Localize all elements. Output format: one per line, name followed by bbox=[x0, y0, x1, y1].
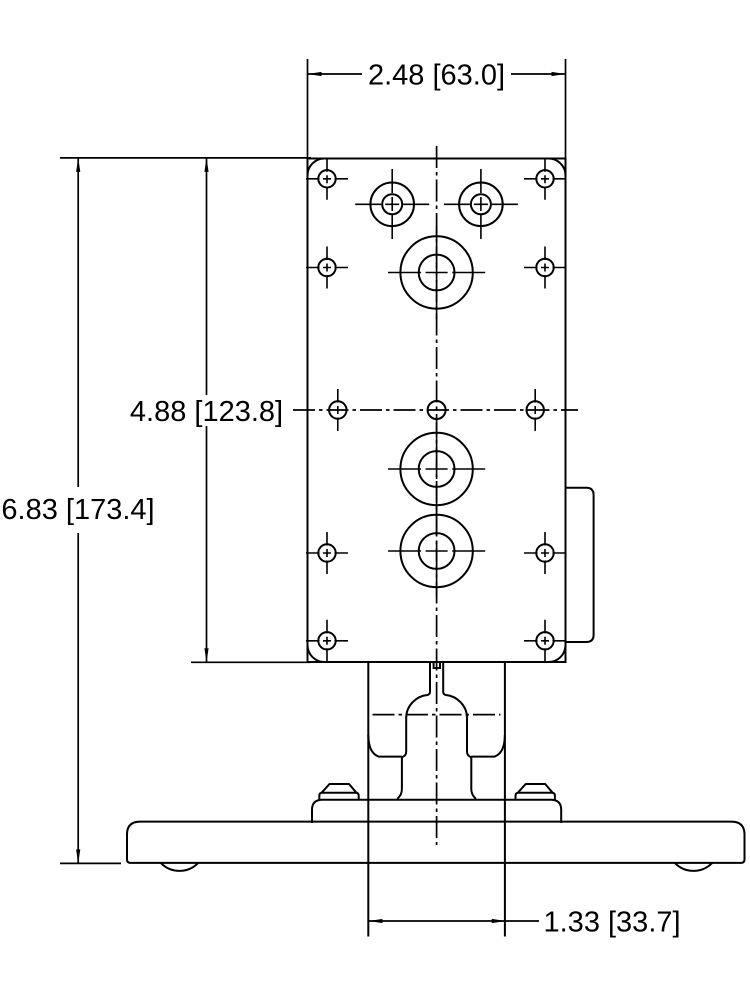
arrowhead 6.83 top bbox=[76, 158, 80, 172]
pedestal right outer line (also extension line for 1.33 dim) bbox=[504, 662, 506, 937]
plate corner fillet top-right bbox=[549, 159, 566, 176]
extension line top width left (plate edge extended) bbox=[307, 59, 309, 159]
horizontal centerline pedestal pivot bbox=[373, 714, 501, 716]
hole centre-row left small bbox=[329, 389, 346, 431]
svg-text:2.48 [63.0]: 2.48 [63.0] bbox=[368, 59, 505, 91]
hole upper-right small row2 bbox=[524, 247, 566, 289]
pedestal left fork curve and shelf bbox=[368, 735, 402, 757]
dimension line 1.33 bbox=[368, 920, 505, 922]
hole bottom-left small bbox=[306, 620, 348, 662]
arrowhead 6.83 bottom bbox=[76, 849, 80, 863]
dimension line 1.33 tail bbox=[506, 920, 539, 922]
hole large middle counterbored bbox=[388, 423, 485, 516]
pedestal right fork curve and shelf bbox=[471, 735, 505, 757]
plate outline bbox=[308, 159, 566, 663]
left screw head cap bbox=[322, 784, 357, 793]
dimension line 4.88 upper part bbox=[206, 158, 208, 395]
arrowhead 2.48 right bbox=[552, 72, 566, 76]
extension line plate top to left dims bbox=[60, 157, 311, 159]
side tab on right edge bbox=[566, 488, 594, 642]
hole upper-left small row2 bbox=[306, 247, 348, 289]
svg-text:6.83 [173.4]: 6.83 [173.4] bbox=[1, 494, 154, 526]
pedestal left outer line (also extension line for 1.33 dim) bbox=[367, 662, 369, 937]
base plate bbox=[127, 822, 745, 863]
arrowhead 4.88 bottom bbox=[204, 648, 208, 662]
mount pad on base bbox=[312, 800, 561, 823]
dimension line 2.48 left part bbox=[308, 73, 363, 75]
svg-text:1.33 [33.7]: 1.33 [33.7] bbox=[544, 906, 681, 938]
svg-text:4.88 [123.8]: 4.88 [123.8] bbox=[130, 396, 283, 428]
arrowhead 2.48 left bbox=[308, 72, 322, 76]
plate corner fillet bottom-right bbox=[549, 645, 566, 662]
plate corner fillet top-left bbox=[308, 159, 325, 176]
extension line top width right (plate edge extended) bbox=[565, 59, 567, 159]
hole medium right counterbored bbox=[444, 169, 518, 240]
hole mid-right small bbox=[524, 532, 566, 574]
dimension line 2.48 right part bbox=[511, 73, 566, 75]
plate corner fillet bottom-left bbox=[308, 645, 325, 662]
hole centre-row right small bbox=[527, 389, 544, 431]
horizontal centerline plate middle row bbox=[293, 409, 578, 411]
left foot bbox=[161, 863, 198, 871]
hole mid-left small bbox=[306, 532, 348, 574]
stud notch at top of bell neck bbox=[434, 662, 440, 668]
extension line base bottom for 6.83 bbox=[60, 862, 121, 864]
hole medium left counterbored bbox=[355, 169, 429, 240]
right foot bbox=[675, 863, 712, 871]
left screw flange bbox=[319, 793, 358, 800]
hole large top counterbored bbox=[388, 226, 485, 319]
hole large bottom counterbored bbox=[388, 505, 485, 598]
hole top-right small bbox=[524, 158, 566, 200]
dimension line 6.83 upper part bbox=[77, 158, 79, 487]
bell right profile bbox=[443, 662, 476, 799]
right screw head cap bbox=[518, 784, 553, 793]
arrowhead 1.33 right bbox=[492, 919, 506, 923]
bell left profile bbox=[397, 662, 430, 799]
hole bottom-right small bbox=[524, 620, 566, 662]
hole top-left small bbox=[306, 158, 348, 200]
dimension line 6.83 lower part bbox=[77, 533, 79, 863]
dimension line 4.88 lower part bbox=[206, 426, 208, 662]
vertical centerline bbox=[436, 146, 438, 845]
arrowhead 1.33 left bbox=[368, 919, 382, 923]
right screw flange bbox=[516, 793, 555, 800]
hole centre-row middle small bbox=[428, 401, 446, 419]
arrowhead 4.88 top bbox=[204, 158, 208, 172]
extension line plate bottom for 4.88 bbox=[191, 661, 311, 663]
